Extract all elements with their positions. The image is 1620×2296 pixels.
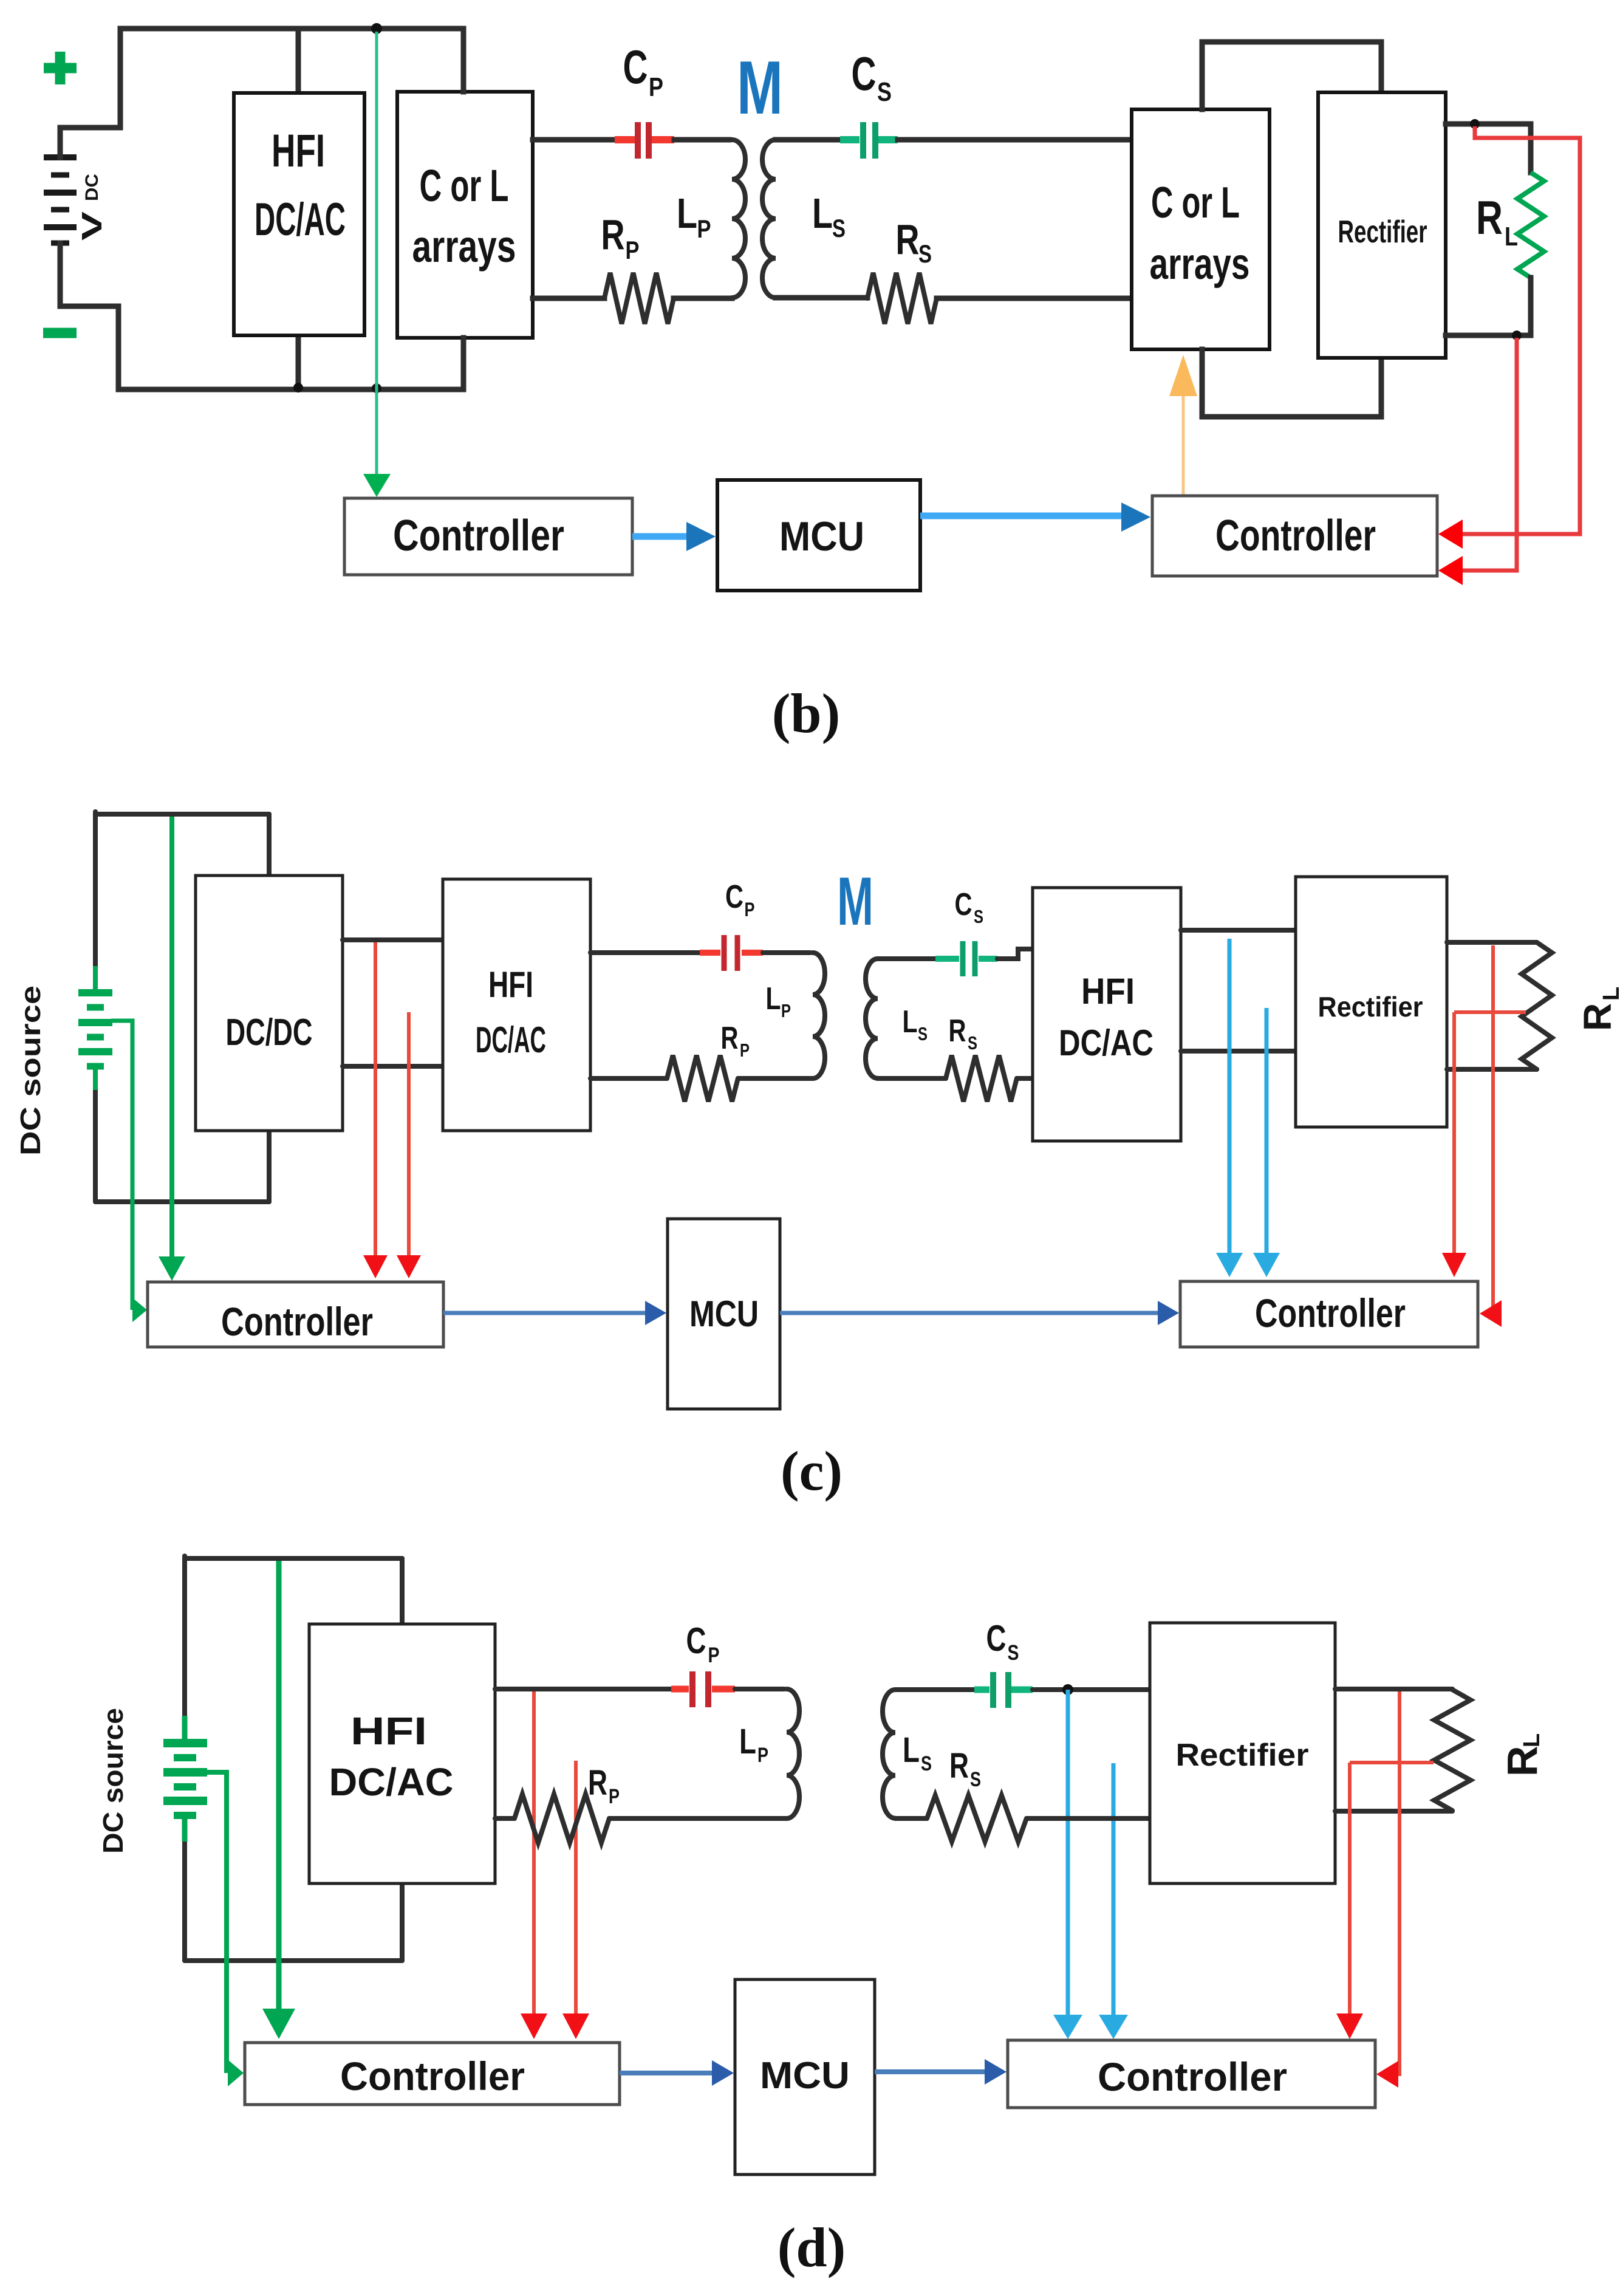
wire secondary top	[776, 137, 840, 143]
svg-text:M: M	[837, 863, 873, 939]
svg-text:HFI: HFI	[1081, 971, 1135, 1012]
red feedback wire A d	[1376, 1691, 1400, 2088]
wire C or L top connector	[461, 29, 467, 92]
svg-text:Controller: Controller	[1215, 512, 1376, 560]
wire primary top out	[533, 137, 615, 143]
red arrowhead A	[1438, 519, 1463, 549]
svg-text:DC/AC: DC/AC	[329, 1760, 454, 1804]
wire primary top out d	[495, 1687, 671, 1691]
svg-text:DC: DC	[82, 174, 102, 201]
wire cap to coil d	[735, 1687, 784, 1691]
wire battery plus lead	[60, 29, 120, 157]
svg-text:L: L	[739, 1722, 756, 1761]
wire secondary top c	[878, 956, 935, 961]
blue arrow controller to MCU d	[620, 2060, 734, 2086]
svg-text:R: R	[1476, 191, 1503, 244]
label RS c	[949, 1013, 978, 1054]
red sense arrow 2 d	[562, 1761, 589, 2039]
resistor RS c	[946, 1055, 1017, 1102]
block Controller left c	[148, 1282, 443, 1347]
svg-text:Rectifier: Rectifier	[1176, 1738, 1309, 1773]
plus terminal symbol	[44, 52, 77, 84]
block Rectifier d	[1150, 1623, 1335, 1883]
op block HFI DC/AC	[234, 93, 364, 335]
wire resistor to coil bottom	[674, 296, 732, 301]
wire left rail upper d	[182, 1556, 187, 1716]
svg-text:Controller: Controller	[221, 1299, 373, 1344]
label CS d	[986, 1618, 1019, 1665]
block Controller right c	[1180, 1281, 1478, 1347]
resistor RS	[867, 273, 937, 324]
wire secondary bottom c	[878, 1076, 946, 1081]
wire resistor to coil bottom d	[609, 1816, 787, 1821]
label RS d	[949, 1746, 981, 1791]
label LS c	[903, 1004, 928, 1044]
cyan sense arrow 2 d	[1099, 1763, 1128, 2039]
svg-text:C: C	[686, 1620, 706, 1661]
capacitor CP	[615, 122, 674, 159]
blue arrow MCU to controller c	[780, 1301, 1179, 1325]
svg-text:L: L	[766, 981, 781, 1016]
svg-text:arrays: arrays	[1150, 240, 1250, 289]
svg-text:R: R	[588, 1763, 607, 1803]
wire HFI top connector	[296, 29, 301, 93]
resistor RP c	[667, 1055, 738, 1102]
label RL c rotated	[1576, 987, 1620, 1031]
battery DC source c	[78, 966, 112, 1090]
label CP d	[686, 1620, 720, 1667]
svg-text:arrays: arrays	[412, 221, 516, 272]
wire DCDC bottom connector	[267, 1131, 272, 1202]
node junction out bottom	[1512, 331, 1522, 340]
svg-text:Controller: Controller	[393, 512, 564, 560]
inductor LP coil	[732, 140, 745, 298]
svg-text:DC/AC: DC/AC	[1059, 1023, 1153, 1063]
wire bottom rail c	[95, 1199, 269, 1204]
block MCU d	[735, 1979, 875, 2174]
wire secondary top d	[895, 1687, 974, 1692]
svg-text:C: C	[623, 40, 648, 94]
svg-text:S: S	[974, 906, 983, 927]
svg-text:P: P	[757, 1744, 768, 1767]
svg-text:MCU: MCU	[760, 2055, 850, 2097]
svg-text:S: S	[918, 239, 932, 268]
green arrow top rail to controller	[159, 817, 185, 1281]
svg-text:DC/DC: DC/DC	[226, 1012, 313, 1054]
cyan sense arrow 2	[1253, 1008, 1280, 1277]
wire rectifier out bottom c	[1447, 1067, 1537, 1072]
red feedback wire A	[1463, 126, 1580, 534]
label RP	[601, 211, 640, 264]
wire rectifier out top d	[1335, 1687, 1452, 1691]
wire rectifier out top	[1446, 124, 1531, 173]
wire rectifier out top c	[1447, 940, 1537, 945]
capacitor CP d	[671, 1671, 735, 1707]
block C or L arrays left	[397, 92, 533, 338]
wire left rail upper	[93, 812, 98, 966]
svg-text:Controller: Controller	[1098, 2054, 1287, 2099]
svg-text:R: R	[601, 211, 625, 258]
svg-text:S: S	[1008, 1641, 1019, 1665]
wire battery minus lead	[60, 243, 118, 389]
wire secondary bottom	[776, 295, 867, 301]
wire C or L bottom connector	[461, 338, 467, 389]
wire RL bottom lead	[1446, 278, 1531, 335]
wire cap CS to rectifier d	[1033, 1687, 1150, 1692]
svg-text:(d): (d)	[778, 2216, 846, 2278]
svg-text:DC/AC: DC/AC	[476, 1019, 546, 1060]
capacitor CS c	[935, 941, 997, 976]
svg-text:DC/AC: DC/AC	[255, 194, 346, 245]
svg-text:P: P	[708, 1643, 720, 1667]
block HFI DC/AC c left	[443, 879, 590, 1131]
inductor LP coil c	[813, 953, 825, 1078]
svg-text:P: P	[649, 72, 663, 102]
label RP c	[721, 1021, 750, 1061]
svg-text:R: R	[896, 216, 920, 263]
capacitor CP c	[700, 935, 763, 971]
svg-text:L: L	[1599, 987, 1620, 1001]
svg-text:R: R	[949, 1746, 969, 1786]
label LP d	[739, 1722, 768, 1767]
block Controller left b	[344, 498, 632, 575]
block MCU c	[668, 1219, 780, 1409]
red sense arrow 1 left	[363, 942, 388, 1278]
wire primary bottom	[533, 296, 604, 301]
red feedback wire B d	[1336, 1763, 1434, 2039]
block Controller right d	[1008, 2040, 1375, 2108]
label CS c	[955, 887, 984, 927]
red feedback wire B c	[1442, 1012, 1526, 1277]
label CP	[623, 40, 664, 102]
label LP	[677, 190, 711, 243]
label LS	[812, 190, 846, 242]
block C or L arrays right	[1132, 109, 1270, 349]
svg-text:(b): (b)	[772, 682, 840, 744]
label RS	[896, 216, 932, 268]
red sense arrow 2 left	[397, 1012, 421, 1278]
label VDC	[76, 174, 108, 241]
svg-text:R: R	[1499, 1746, 1546, 1777]
block Rectifier c	[1296, 877, 1447, 1127]
svg-text:R: R	[949, 1013, 966, 1049]
svg-text:C: C	[955, 887, 972, 922]
svg-text:R: R	[721, 1021, 739, 1056]
wire cap CS to block	[898, 137, 1132, 143]
resistor RP	[604, 273, 674, 324]
label LP c	[766, 981, 791, 1021]
svg-text:S: S	[877, 77, 892, 107]
red arrowhead B	[1438, 556, 1463, 585]
wire HFI to rectifier bottom c	[1181, 1049, 1296, 1054]
svg-text:L: L	[677, 190, 697, 237]
label LS d	[903, 1730, 932, 1775]
svg-text:P: P	[745, 899, 755, 920]
svg-text:C: C	[986, 1618, 1007, 1659]
wire right block top loop	[1202, 42, 1381, 109]
svg-text:Rectifier: Rectifier	[1318, 991, 1423, 1023]
inductor LS coil	[762, 140, 776, 298]
wire primary bottom c	[590, 1076, 667, 1081]
blue arrow controller to MCU	[632, 522, 716, 551]
svg-text:C or L: C or L	[420, 160, 509, 211]
wire right block bottom loop	[1202, 349, 1381, 417]
wire resistor RS to block	[937, 296, 1132, 301]
resistor RL c	[1522, 942, 1552, 1069]
svg-text:S: S	[921, 1752, 932, 1775]
node junction cyan tap d	[1062, 1684, 1073, 1695]
wire top rail d	[185, 1556, 402, 1561]
wire top rail c	[95, 812, 269, 817]
block Controller right b	[1152, 496, 1437, 576]
svg-text:S: S	[918, 1023, 928, 1044]
label CP c	[725, 879, 755, 920]
wire resistor RS to rectifier d	[1027, 1816, 1150, 1821]
svg-text:V: V	[76, 211, 108, 241]
svg-text:MCU: MCU	[689, 1294, 759, 1334]
label RP d	[588, 1763, 620, 1808]
svg-text:DC source: DC source	[97, 1708, 129, 1854]
wire cap to coil c	[763, 950, 810, 955]
wire bottom rail b	[118, 387, 463, 392]
svg-text:(c): (c)	[781, 1440, 842, 1502]
svg-text:P: P	[781, 1000, 791, 1021]
svg-text:HFI: HFI	[488, 964, 533, 1005]
node junction green crossing	[372, 383, 381, 393]
svg-text:Rectifier: Rectifier	[1338, 214, 1427, 250]
node junction top rail	[371, 23, 382, 34]
red feedback wire A c	[1480, 945, 1502, 1327]
svg-text:L: L	[903, 1730, 920, 1770]
wire secondary bottom d	[895, 1816, 927, 1821]
wire DCDC to HFI top	[343, 937, 443, 942]
green sense arrow to controller	[363, 32, 391, 497]
block DC/DC	[196, 876, 343, 1131]
svg-text:L: L	[1519, 1733, 1545, 1747]
resistor RL green	[1517, 173, 1544, 278]
resistor RP d	[514, 1794, 609, 1843]
svg-text:L: L	[903, 1004, 918, 1040]
svg-text:M: M	[737, 46, 783, 130]
resistor RL d	[1434, 1690, 1471, 1811]
node junction HFI bottom	[293, 383, 303, 392]
wire left rail lower	[93, 1090, 98, 1202]
cyan sense arrow 1 d	[1053, 1690, 1082, 2039]
wire DCDC top connector	[267, 814, 272, 876]
wire top rail b	[120, 26, 463, 32]
label RL d rotated	[1499, 1733, 1546, 1777]
block Rectifier b	[1318, 92, 1446, 358]
svg-text:C: C	[725, 879, 743, 915]
svg-text:P: P	[740, 1040, 750, 1061]
red feedback wire B	[1463, 338, 1517, 571]
wire DCDC to HFI bottom	[343, 1064, 443, 1069]
green branch arrow to controller left edge d	[207, 1772, 244, 2086]
wire HFI top connector d	[400, 1558, 405, 1624]
block HFI DC/AC d	[309, 1624, 495, 1883]
label RL	[1476, 191, 1518, 252]
label CS	[852, 47, 892, 107]
svg-text:C or L: C or L	[1151, 179, 1240, 227]
inductor LP coil d	[787, 1689, 799, 1818]
cyan sense arrow 1	[1216, 939, 1243, 1277]
inductor LS coil d	[883, 1690, 895, 1818]
wire cap to coil	[674, 137, 729, 143]
blue arrow MCU to controller	[920, 502, 1150, 532]
svg-text:C: C	[852, 47, 877, 100]
wire resistor to coil bottom c	[738, 1076, 813, 1081]
green branch arrow to controller left edge	[111, 1021, 147, 1322]
resistor RS d	[927, 1795, 1027, 1842]
node junction out top	[1470, 119, 1480, 129]
wire left rail lower d	[182, 1842, 187, 1961]
block Controller left d	[245, 2043, 620, 2105]
blue arrow controller to MCU c	[443, 1301, 666, 1325]
svg-text:S: S	[968, 1032, 977, 1054]
green arrow top rail to controller d	[262, 1561, 295, 2039]
blue arrow MCU to controller d	[875, 2059, 1007, 2085]
svg-text:HFI: HFI	[272, 125, 325, 177]
svg-text:HFI: HFI	[350, 1709, 427, 1753]
svg-text:Controller: Controller	[340, 2054, 525, 2099]
svg-text:R: R	[1576, 1003, 1619, 1031]
battery DC source d	[163, 1716, 207, 1842]
wire cap CS into HFI with jog	[997, 949, 1033, 959]
capacitor CS	[840, 122, 898, 159]
svg-text:DC source: DC source	[15, 985, 46, 1156]
svg-text:P: P	[626, 236, 640, 264]
svg-text:S: S	[970, 1768, 981, 1791]
svg-text:L: L	[812, 190, 833, 237]
red sense arrow 1 d	[521, 1691, 547, 2039]
orange feedback arrow	[1169, 355, 1197, 496]
wire HFI bottom connector	[296, 335, 301, 389]
wire primary bottom d	[495, 1816, 514, 1821]
wire primary top out c	[590, 950, 700, 955]
wire bottom rail d	[185, 1958, 402, 1963]
svg-text:Controller: Controller	[1255, 1290, 1406, 1335]
svg-text:S: S	[832, 214, 846, 242]
capacitor CS d	[974, 1672, 1033, 1708]
svg-text:P: P	[697, 214, 711, 243]
svg-text:MCU: MCU	[779, 513, 864, 560]
wire HFI to rectifier top c	[1181, 928, 1296, 933]
wire rectifier out bottom d	[1335, 1809, 1452, 1814]
wire HFI bottom connector d	[400, 1883, 405, 1961]
minus terminal symbol	[43, 328, 77, 338]
svg-text:P: P	[609, 1785, 620, 1808]
svg-text:L: L	[1505, 222, 1518, 252]
block HFI DC/AC c right	[1033, 888, 1181, 1141]
battery VDC	[44, 157, 77, 243]
wire resistor RS into HFI c	[1017, 1076, 1033, 1081]
block MCU b	[717, 480, 920, 591]
inductor LS coil c	[866, 959, 878, 1078]
